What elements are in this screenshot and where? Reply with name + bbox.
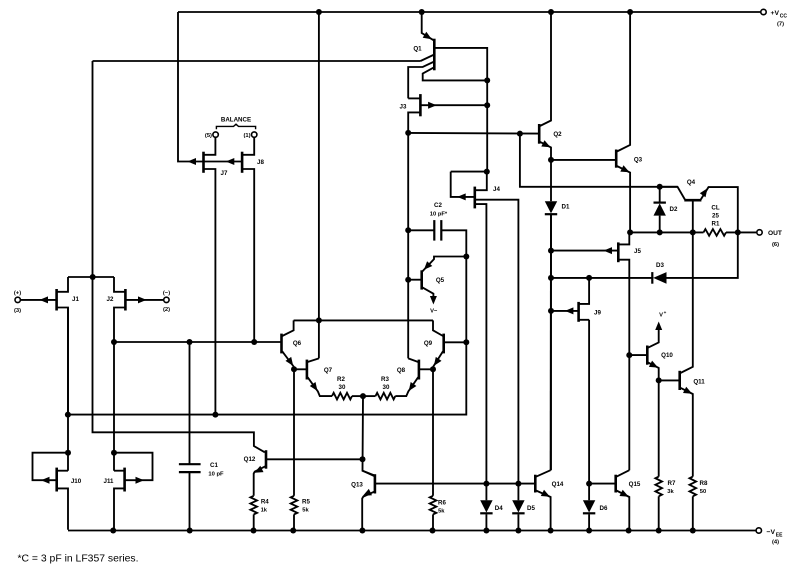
node J5 source / Q10 base (626, 352, 632, 358)
node Q12 base line / tap column (360, 456, 366, 462)
jfet J8 (226, 138, 265, 342)
node top rail / Q3 collector (627, 9, 633, 15)
transistor Q6 (282, 320, 302, 369)
svg-text:OUT: OUT (768, 230, 782, 237)
svg-text:Q3: Q3 (634, 157, 643, 164)
wire bottom -Vee rail (68, 530, 756, 532)
node bottom rail / D4 (483, 528, 489, 534)
label BALANCE (221, 117, 251, 124)
node Q13 base line / D5 column (515, 481, 521, 487)
svg-text:CL: CL (711, 205, 719, 212)
node bottom rail / C1 (187, 528, 193, 534)
footnote (18, 554, 139, 565)
wire J2 source column (113, 342, 115, 471)
wire Q2 base line (y133) (408, 132, 539, 135)
transistor Q2 (539, 12, 562, 160)
svg-text:30: 30 (339, 384, 346, 391)
svg-text:+: + (664, 310, 667, 315)
node J1-J2 drains / x92 column (90, 274, 96, 280)
wire x466 column lower (215, 342, 466, 414)
wire R2R3 tap to Q13 (363, 396, 375, 475)
transistor Q13 (351, 471, 535, 531)
svg-text:D4: D4 (495, 505, 503, 512)
node bottom rail / Q15 emitter (626, 528, 632, 534)
node H7 / J2 source (111, 339, 117, 345)
svg-text:C2: C2 (434, 202, 442, 209)
power terminal +Vcc (pin 7) (761, 9, 788, 27)
node J3 source / Q2 base line (405, 130, 411, 136)
svg-text:J9: J9 (594, 309, 601, 316)
jfet J5 (551, 232, 641, 470)
svg-text:V−: V− (430, 308, 438, 314)
svg-text:1k: 1k (261, 508, 268, 514)
jfet J10 (33, 453, 82, 530)
svg-text:10 pF*: 10 pF* (430, 212, 448, 218)
node D3 line / J9 drain (586, 275, 592, 281)
output terminal OUT (pin 6) (757, 230, 782, 248)
svg-text:+V: +V (771, 10, 780, 17)
resistor R1 (25) (704, 205, 757, 236)
svg-text:30: 30 (383, 384, 390, 391)
node R2-R3 center tap (360, 393, 366, 399)
diode D2 (reversed) (654, 187, 679, 233)
svg-text:(3): (3) (14, 308, 21, 314)
svg-text:J8: J8 (257, 159, 264, 166)
svg-text:R3: R3 (381, 376, 389, 383)
wire Q3 base line (551, 159, 616, 161)
wire Q10 base lead (629, 354, 647, 356)
wire J1 gate lead (21, 299, 57, 301)
jfet J4 (451, 172, 519, 484)
node Q13 base line / D4 column (483, 481, 489, 487)
svg-text:BALANCE: BALANCE (221, 117, 251, 124)
wire x319 column (318, 12, 320, 358)
node H9 / J1 source column (65, 412, 71, 418)
wire x487 column (Q1 collector to J4) (486, 80, 488, 171)
resistor R4 (1k) (250, 496, 269, 531)
node C2 left / x408 column (405, 227, 411, 233)
transistor Q12 (244, 450, 363, 496)
wire Q14 collector column (550, 214, 552, 470)
transistor Q10 (647, 310, 673, 380)
svg-text:Q4: Q4 (687, 179, 696, 186)
resistor R8 (50) (690, 477, 709, 531)
node Q10 emitter / Q11 base (656, 377, 662, 383)
wire x520 drop to bias line (520, 134, 678, 187)
node top rail / Q1 emitter (419, 9, 425, 15)
wire top +Vcc rail (178, 11, 761, 13)
svg-text:Q12: Q12 (244, 456, 256, 463)
diode D1 (545, 160, 570, 214)
svg-text:R2: R2 (337, 376, 345, 383)
svg-text:J2: J2 (107, 296, 114, 303)
input terminal (+) (pin 3) (14, 290, 21, 314)
svg-text:Q14: Q14 (552, 481, 564, 488)
svg-text:D2: D2 (670, 206, 678, 213)
jfet J9 (551, 278, 601, 322)
node bias line / D2 top (657, 184, 663, 190)
svg-text:Q9: Q9 (424, 340, 433, 347)
node out line / D2 (657, 229, 663, 235)
node Q9 base / x466 column (463, 339, 469, 345)
node Q2 emitter / Q3 base (548, 157, 554, 163)
svg-text:(4): (4) (772, 540, 779, 546)
wire H9 left segment (68, 414, 216, 416)
wire Q7 base lead (294, 368, 307, 370)
wire Q11 base lead (659, 379, 680, 381)
node Q5 base / x408 column (405, 277, 411, 283)
node bottom rail / D5 (515, 528, 521, 534)
jfet J2 (107, 277, 164, 342)
wire out line (y232) (630, 231, 703, 233)
node H9 / J7 source (212, 412, 218, 418)
transistor Q15 (616, 470, 641, 530)
svg-text:C1: C1 (210, 462, 218, 469)
svg-text:Q1: Q1 (413, 46, 422, 53)
svg-text:Q7: Q7 (324, 367, 333, 374)
svg-text:D1: D1 (562, 204, 570, 211)
transistor Q11 (680, 232, 706, 476)
wire x92 column (Q1 base line down to Q12 collector) (93, 61, 265, 452)
svg-text:J1: J1 (72, 296, 79, 303)
wire x408 column (Q1 collector B down to Q8 collector) (407, 133, 409, 359)
transistor Q9 (424, 320, 466, 369)
diode D4 (480, 484, 503, 531)
transistor Q1 (dual-collector pnp) (408, 12, 487, 98)
svg-text:D5: D5 (527, 505, 535, 512)
svg-text:Q8: Q8 (397, 367, 406, 374)
balance terminal (1) (244, 132, 257, 139)
svg-text:Q10: Q10 (661, 352, 673, 359)
svg-text:50: 50 (700, 489, 706, 495)
svg-text:V: V (659, 313, 663, 319)
resistor R3 (30) (363, 376, 395, 399)
svg-text:R5: R5 (302, 499, 310, 506)
node J5 gate / D1 column (548, 248, 554, 254)
node out line / Q4 emitter (735, 229, 741, 235)
svg-text:Q11: Q11 (693, 379, 705, 386)
svg-text:J3: J3 (400, 104, 407, 111)
diode D3 (points left) (551, 232, 738, 283)
svg-text:(−): (−) (163, 290, 170, 296)
jfet J7 (188, 138, 228, 415)
svg-text:3k: 3k (667, 489, 674, 495)
svg-text:Q5: Q5 (436, 277, 445, 284)
transistor Q14 (535, 470, 564, 530)
jfet J3 (400, 94, 488, 133)
svg-text:J5: J5 (634, 248, 641, 255)
transistor Q3 (616, 12, 642, 232)
transistor Q5 (pnp) (408, 257, 466, 315)
svg-text:(2): (2) (163, 307, 170, 313)
resistor R5 (5k) (291, 369, 311, 530)
diode D6 (583, 500, 608, 530)
svg-text:(5): (5) (205, 133, 212, 139)
transistor Q4 (660, 179, 738, 232)
node J4 drain / x487 column (484, 169, 490, 175)
node Q2 base line / x520 drop (517, 131, 523, 137)
svg-text:Q6: Q6 (293, 340, 302, 347)
wire R7 column (658, 380, 660, 476)
svg-text:CC: CC (780, 14, 788, 20)
svg-text:Q15: Q15 (629, 481, 641, 488)
svg-text:R4: R4 (261, 499, 269, 506)
svg-text:R6: R6 (438, 499, 446, 506)
svg-text:(1): (1) (244, 133, 251, 139)
wire J1/J2 drain tie (68, 276, 114, 278)
svg-text:*C = 3 pF in LF357 series.: *C = 3 pF in LF357 series. (18, 554, 139, 565)
node bottom rail / R8 (690, 528, 696, 534)
capacitor C2 (408, 202, 466, 257)
node bottom rail / Q13 emitter (359, 528, 365, 534)
wire rail corner down to balance-JFET gates (178, 12, 242, 162)
svg-text:J10: J10 (71, 478, 82, 485)
jfet J1 (40, 277, 80, 415)
wire Q6-Q9 collector line (y320) (294, 319, 433, 321)
svg-text:(6): (6) (772, 242, 779, 248)
wire Q1 base line (y61) (93, 60, 421, 62)
svg-text:(+): (+) (14, 290, 21, 296)
power terminal -Vee (pin 4) (756, 528, 783, 546)
svg-text:Q13: Q13 (351, 482, 363, 489)
svg-text:R7: R7 (668, 480, 676, 487)
wire R6 column (432, 369, 434, 496)
balance brace (216, 124, 255, 129)
node Q15 base line / D6 column (586, 481, 592, 487)
transistor Q7 (307, 358, 333, 396)
svg-text:J11: J11 (104, 478, 115, 485)
svg-text:(7): (7) (777, 22, 784, 28)
node bottom rail / R4 (251, 528, 257, 534)
node top rail / Q2 collector (548, 9, 554, 15)
balance terminal (5) (205, 132, 218, 139)
node J3 gate / x487 column (484, 102, 490, 108)
svg-text:D3: D3 (656, 262, 664, 269)
wire C1 column (189, 342, 191, 464)
node bottom rail / R7 (656, 528, 662, 534)
resistor R7 (3k) (655, 477, 676, 531)
svg-text:5k: 5k (302, 508, 309, 514)
node J10 gate loop / J1 column (65, 450, 71, 456)
wire J9 bottom column (588, 320, 590, 501)
node Q6 emitter / Q7 base (291, 366, 297, 372)
node C2 right / Q5 emitter (463, 254, 469, 260)
svg-text:−V: −V (767, 529, 776, 536)
input terminal (−) (pin 2) (163, 290, 170, 313)
node top rail / J3-Q7 column (316, 9, 322, 15)
wire Q15 base lead (589, 483, 616, 485)
svg-text:Q2: Q2 (553, 131, 562, 138)
wire x466 column (Q5 emitter to H9) (465, 257, 467, 343)
node H7 / J8 source (251, 339, 257, 345)
svg-text:D6: D6 (600, 505, 608, 512)
resistor R6 (5k) (430, 496, 447, 531)
diode D5 (512, 484, 535, 531)
node bottom rail / Q14 emitter (548, 528, 554, 534)
node Q1 collector tie (484, 77, 490, 83)
wire J1 source column (67, 308, 69, 471)
node out line / Q4 base (690, 229, 696, 235)
node y320 line / x319 column (316, 317, 322, 323)
wire D1 cathode column (550, 214, 552, 470)
node out line / Q3 emitter (627, 229, 633, 235)
node bottom rail / R5 (290, 528, 296, 534)
wire H7 tail-current line (y342) (114, 341, 282, 343)
transistor Q8 (395, 358, 419, 396)
node J9 gate / D1 column (548, 308, 554, 314)
node J11 gate loop / J2 column (111, 450, 117, 456)
node Q9 emitter / Q8 base (430, 366, 436, 372)
svg-text:5k: 5k (438, 508, 445, 514)
node D3 line / D1 column (548, 275, 554, 281)
svg-text:10 pF: 10 pF (208, 472, 224, 478)
node bottom rail / R6 (430, 528, 436, 534)
capacitor C1 (179, 462, 224, 531)
svg-text:R1: R1 (712, 221, 720, 228)
wire Q8 base lead (419, 368, 433, 370)
svg-text:25: 25 (712, 213, 719, 220)
jfet J11 (104, 453, 153, 531)
node bottom rail / J11 (110, 528, 116, 534)
svg-text:R8: R8 (700, 480, 708, 487)
svg-text:EE: EE (776, 532, 783, 538)
node bottom rail / D6 (586, 528, 592, 534)
resistor R2 (30) (332, 376, 363, 399)
svg-text:J7: J7 (221, 170, 228, 177)
node H7 / C1 top (187, 339, 193, 345)
svg-text:J4: J4 (493, 186, 500, 193)
